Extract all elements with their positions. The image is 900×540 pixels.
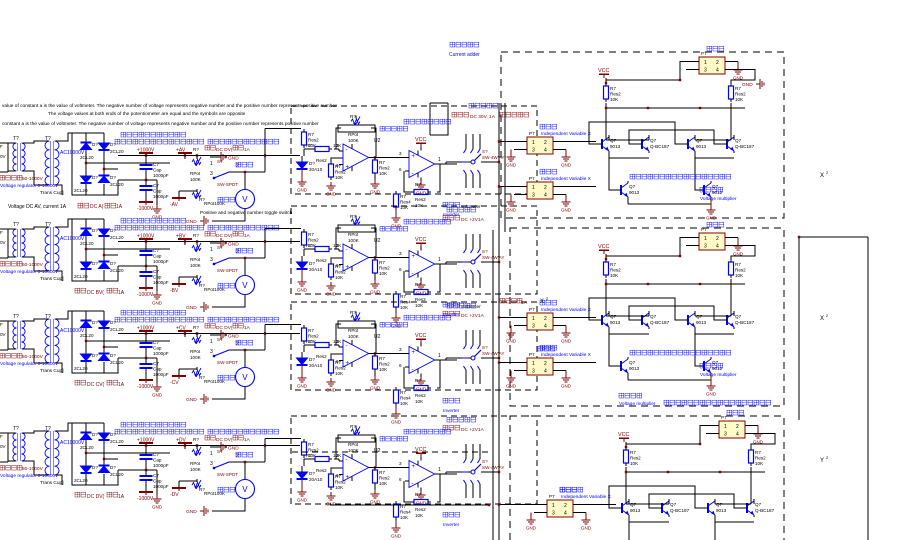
svg-text:2CL20: 2CL20	[74, 188, 88, 193]
svg-text:Voltage regulator 0-10000v: Voltage regulator 0-10000v	[0, 269, 58, 275]
power -1000V row2	[137, 280, 154, 298]
transistor Q7 Q-BC187 multiplier box1 #4	[721, 135, 755, 153]
wire: row4 bridge frame	[56, 423, 171, 485]
svg-text:2CL20: 2CL20	[80, 241, 94, 246]
svg-text:1000pF: 1000pF	[153, 351, 169, 356]
svg-text:9012: 9012	[712, 366, 723, 371]
svg-text:C7: C7	[153, 248, 159, 253]
svg-text:DC +2V1A: DC +2V1A	[461, 427, 485, 433]
ground row1 filter GND	[146, 180, 163, 220]
svg-text:Q7: Q7	[735, 314, 742, 319]
power -DV row4	[170, 481, 186, 498]
row2 left-edge input stub	[0, 229, 8, 258]
svg-text:1A: 1A	[244, 437, 251, 443]
connector P7 multiplier box2 input #1	[514, 307, 566, 330]
wire: row3 SPDT to voltmeter and output	[212, 325, 301, 400]
connector P7 multiplier box2 input #2	[514, 352, 566, 375]
svg-text:Voltage regulator 0-10000v: Voltage regulator 0-10000v	[0, 473, 58, 479]
svg-text:Q-BC187: Q-BC187	[650, 144, 670, 149]
svg-text:2CL20: 2CL20	[74, 478, 88, 483]
svg-text:0V: 0V	[0, 240, 7, 245]
ground row3 noninv GND	[326, 378, 337, 393]
row1 left-edge input stub	[0, 143, 8, 172]
svg-text:10K: 10K	[379, 367, 388, 372]
wire: row1 inverter feedback	[404, 164, 440, 192]
svg-text:20A10: 20A10	[309, 167, 323, 172]
svg-text:Y: Y	[820, 458, 824, 464]
svg-text:10K: 10K	[335, 485, 344, 490]
svg-text:P7: P7	[529, 131, 535, 136]
svg-text:Trans Cup]: Trans Cup]	[40, 368, 64, 374]
svg-text:R7: R7	[415, 282, 421, 287]
wire: row4 opamp to rotary	[446, 472, 457, 474]
wire: row1 inverter out pin1	[435, 157, 446, 164]
wire: row4 stage link	[371, 461, 409, 482]
svg-text:3: 3	[399, 461, 402, 466]
wire: row4 cap join	[118, 463, 147, 476]
svg-text:-1000V: -1000V	[137, 384, 154, 390]
wire: row2 inverter out pin1	[435, 257, 446, 264]
ground row1 voltmeter sideways GND	[186, 216, 208, 226]
label multiplier box2 output X^2	[820, 313, 829, 322]
resistor R7 Res2 10K row1 input	[302, 129, 320, 148]
svg-text:Res4: Res4	[400, 510, 411, 515]
svg-text:R7: R7	[735, 262, 741, 267]
svg-text:2CL20: 2CL20	[74, 274, 88, 279]
capacitor C7 row3 lower (1000pF)	[140, 360, 169, 377]
ground multiplier box2 input #1 GND R	[561, 326, 572, 344]
svg-text:DC BV(: DC BV(	[87, 290, 104, 296]
power VCC row1 inverter	[415, 137, 426, 151]
svg-text:DC DV(: DC DV(	[216, 233, 233, 239]
svg-text:F: F	[0, 230, 3, 235]
svg-text:V: V	[242, 195, 248, 204]
svg-text:-1000V: -1000V	[137, 206, 154, 212]
capacitor C7 row2 upper (1000pF)	[140, 247, 169, 264]
diode D? row1 bridge bottom-left (2CL20)	[74, 175, 98, 193]
wire: row2 bridge frame	[56, 219, 171, 281]
ground row4 filter GND	[146, 470, 163, 510]
svg-text:Res2: Res2	[316, 468, 327, 473]
wire: multiplier box2 lower mesh	[609, 334, 711, 380]
svg-text:3: 3	[210, 171, 213, 177]
resistor R7 Res2 10K multiplier box2 left	[604, 254, 622, 278]
power +BV row2	[176, 234, 192, 246]
svg-text:Positive and negative number t: Positive and negative number toggle swit…	[200, 210, 293, 216]
label row1 output CJK	[452, 103, 529, 120]
ground row2 noninv GND	[326, 282, 337, 297]
svg-text:1: 1	[532, 140, 535, 146]
svg-text:10K: 10K	[379, 171, 388, 176]
switch S7 SW-SPDT row1	[210, 159, 239, 187]
svg-text:R?: R?	[193, 147, 199, 152]
row3 annotation CJK line2	[115, 317, 279, 331]
svg-text:+: +	[412, 154, 416, 160]
wire: multiplier box2 input #1 to base mesh	[558, 317, 596, 319]
svg-text:Res2: Res2	[316, 258, 327, 263]
svg-text:GND: GND	[228, 446, 239, 452]
wire: row3 opamp input wires	[304, 339, 343, 364]
wire: row1 opamp to rotary	[446, 162, 457, 164]
svg-text:R7: R7	[735, 86, 741, 91]
wire: multiplier box1 input #1 to base mesh	[558, 141, 596, 143]
svg-text:0V: 0V	[0, 444, 7, 449]
svg-text:+: +	[412, 350, 416, 356]
svg-text:The voltage values at both end: The voltage values at both ends of the p…	[48, 111, 246, 117]
row2 opamp section dashed box	[291, 206, 537, 294]
potentiometer R? RPot 100K row2 feedback	[336, 214, 376, 257]
svg-text:R7: R7	[306, 243, 312, 248]
diode D? row2 bridge top-left (2CL20)	[80, 228, 98, 246]
svg-text:GND: GND	[561, 339, 572, 344]
ground multiplier box2 output GND	[733, 238, 744, 257]
voltmeter row4 (V)	[236, 480, 255, 499]
power +1000V row4	[137, 438, 155, 455]
label row4 output CJK	[443, 417, 485, 433]
note: English description line 1	[2, 103, 337, 109]
resistor R7 Res2 10K row2 interstage	[373, 256, 391, 276]
ground row2 interstage GND	[370, 276, 381, 295]
power +1000V row1	[137, 148, 155, 165]
label row3 toggle net	[236, 340, 253, 345]
ground row4 interstage GND	[370, 486, 381, 505]
transformer T7 row3 primary	[8, 314, 25, 349]
resistor R7 Res2 10K multiplier box3 right	[749, 447, 767, 466]
wire: multiplier box3 input #1 to base mesh	[578, 504, 616, 506]
switch S7 SW-SPDT row3	[210, 337, 239, 365]
svg-text:Independent Variable X: Independent Variable X	[541, 131, 592, 137]
svg-text:R7: R7	[400, 294, 406, 299]
svg-text:Res2: Res2	[308, 138, 319, 143]
svg-text:2CL20: 2CL20	[110, 472, 124, 477]
svg-text:3: 3	[399, 347, 402, 352]
potentiometer R? RPot 100K row2 lower	[179, 275, 226, 292]
resistor R7 Res2 10K row3 inv-fb	[411, 378, 431, 404]
ground multiplier box1 emitter GND	[706, 199, 717, 221]
svg-text:1A: 1A	[116, 204, 123, 210]
svg-text:1: 1	[438, 467, 441, 473]
svg-text:2: 2	[716, 236, 719, 242]
ground row1 noninv GND	[326, 182, 337, 197]
power +1000V row3	[137, 326, 155, 343]
svg-text:Q7: Q7	[712, 360, 719, 365]
power VCC multiplier box1	[598, 68, 609, 78]
resistor R7 Res2 10K row3 interstage	[373, 352, 391, 372]
diode D? row1 bridge top-right (2CL20)	[99, 142, 124, 154]
connector P7 multiplier box2 output header	[686, 222, 738, 250]
svg-text:-: -	[412, 271, 414, 277]
potentiometer R? RPot 100K row4 upper	[190, 437, 202, 472]
svg-text:GND: GND	[370, 290, 381, 295]
wire: row3 rotary to bus	[481, 357, 500, 359]
svg-text:VCC: VCC	[415, 137, 426, 143]
svg-text:+: +	[346, 361, 350, 367]
svg-text:3: 3	[210, 349, 213, 355]
power +DV row4	[176, 438, 192, 450]
svg-text:R?: R?	[350, 310, 356, 315]
svg-text:RPot: RPot	[348, 132, 359, 137]
svg-text:Independent Variable X: Independent Variable X	[561, 494, 612, 500]
svg-text:10K: 10K	[400, 515, 409, 520]
svg-text:S7: S7	[217, 337, 223, 342]
svg-text:Q7: Q7	[629, 184, 636, 189]
diode D? row4 bridge bottom-right (2CL20)	[99, 465, 124, 477]
wire: row3 opamp to rotary	[446, 358, 457, 360]
ground row2 sideways GND at switch input	[210, 238, 239, 248]
svg-text:3: 3	[532, 148, 535, 154]
op-amp U2 row1 first stage	[339, 138, 381, 171]
label multiplier box3 output Y^2	[820, 455, 829, 464]
wire: row2 opamp input wires	[304, 243, 343, 268]
wire: row2 rotary to bus	[481, 261, 500, 263]
svg-text:SW-SPDT: SW-SPDT	[217, 182, 238, 187]
resistor R7 Res2 10K row4 series	[304, 453, 342, 473]
svg-text:GND: GND	[152, 301, 163, 306]
svg-text:+: +	[412, 464, 416, 470]
svg-text:R7: R7	[415, 182, 421, 187]
svg-text:9013: 9013	[610, 320, 621, 325]
svg-text:1000pF: 1000pF	[153, 194, 169, 199]
wire: row3 bridge frame	[56, 311, 171, 373]
svg-text:1: 1	[438, 257, 441, 263]
svg-text:U2: U2	[374, 238, 381, 244]
svg-text:9013: 9013	[696, 144, 707, 149]
svg-text:2: 2	[544, 140, 547, 146]
svg-text:VCC: VCC	[598, 244, 609, 250]
svg-text:+BV: +BV	[176, 234, 186, 240]
label multiplier box2 name	[700, 363, 737, 378]
svg-text:1A: 1A	[521, 300, 528, 306]
connector P7 multiplier box1 output header	[686, 46, 738, 74]
svg-text:GND: GND	[370, 386, 381, 391]
capacitor C7 row4 lower (1000pF)	[140, 472, 169, 489]
label row2 Inverter	[443, 302, 481, 318]
power -BV row2	[170, 277, 186, 294]
diode D? row3 bridge bottom-left (2CL20)	[74, 353, 98, 371]
transformer T7 row1 secondary (step-up)	[23, 136, 85, 185]
svg-text:GND: GND	[370, 190, 381, 195]
svg-text:P7: P7	[701, 51, 707, 56]
diode D? row1 bridge top-left (2CL20)	[80, 142, 98, 160]
transformer T7 row1 primary	[8, 136, 25, 171]
svg-text:Res2: Res2	[415, 393, 426, 398]
transistor Q7 Q-BC187 multiplier box1 #2	[636, 135, 670, 153]
row1 opamp section dashed box	[291, 106, 537, 194]
wire: row4 inverter feedback	[404, 474, 440, 502]
svg-text:9013: 9013	[716, 508, 727, 513]
svg-text:1A: 1A	[244, 147, 251, 153]
svg-text:C7: C7	[153, 473, 159, 478]
svg-text:C7: C7	[153, 452, 159, 457]
svg-text:-: -	[346, 148, 348, 154]
diode D? 20A10 row2 clamp	[297, 256, 323, 272]
svg-text:R?: R?	[350, 424, 356, 429]
svg-text:2CL20: 2CL20	[80, 333, 94, 338]
svg-text:0V: 0V	[0, 154, 7, 159]
svg-text:Res2: Res2	[316, 354, 327, 359]
svg-text:DC DV(: DC DV(	[216, 437, 233, 443]
row4 opamp section dashed box	[291, 416, 537, 504]
svg-text:D?: D?	[110, 228, 116, 233]
svg-text:D?: D?	[92, 353, 98, 358]
svg-text:20A10: 20A10	[309, 363, 323, 368]
ground multiplier box2 input #1 GND L	[506, 326, 517, 344]
svg-text:S?: S?	[482, 345, 488, 350]
connector P7 multiplier box1 input #2	[514, 176, 566, 199]
svg-text:2CL20: 2CL20	[110, 149, 124, 154]
svg-text:10K: 10K	[335, 371, 344, 376]
wire: vertical bus x=499	[498, 103, 500, 540]
svg-text:R7: R7	[379, 160, 385, 165]
row1 annotation CJK line2	[115, 139, 279, 153]
svg-text:Res2: Res2	[308, 238, 319, 243]
svg-text:-: -	[412, 481, 414, 487]
svg-text:-1000V: -1000V	[137, 496, 154, 502]
connector P7 multiplier box3 output header	[706, 410, 758, 438]
label row4 Inverter	[443, 512, 460, 528]
wire: multiplier box2 input #2 to base mesh	[558, 362, 596, 364]
ground row2 voltmeter sideways GND	[186, 302, 208, 312]
power VCC multiplier box2	[598, 244, 609, 254]
svg-text:2CL20: 2CL20	[110, 235, 124, 240]
ground row1 inv-gnd GND	[391, 210, 402, 229]
capacitor C7 row2 lower (1000pF)	[140, 268, 169, 285]
svg-text:4: 4	[716, 244, 719, 250]
svg-text:+: +	[346, 265, 350, 271]
wire: row2 opamp to rotary	[446, 262, 457, 264]
svg-text:10K: 10K	[400, 305, 409, 310]
label multiplier box1 input #1 CJK	[540, 124, 592, 137]
label row4 toggle net	[236, 452, 253, 457]
op-amp row2 inverter stage	[405, 251, 439, 278]
svg-text:T?: T?	[13, 426, 19, 432]
resistor R7 Res2 10K row2 inv-fb	[411, 282, 431, 308]
svg-text:GND: GND	[706, 216, 717, 221]
svg-text:S7: S7	[217, 449, 223, 454]
svg-text:Res2: Res2	[735, 268, 746, 273]
power -AV row1	[170, 191, 186, 208]
svg-text:10K: 10K	[379, 481, 388, 486]
svg-text:-: -	[346, 248, 348, 254]
wire: row2 inverter feedback	[404, 264, 440, 292]
svg-text:GND: GND	[561, 384, 572, 389]
svg-text:DC DV(: DC DV(	[216, 325, 233, 331]
svg-text:10K: 10K	[755, 461, 764, 466]
svg-text:VCC: VCC	[618, 432, 629, 438]
svg-text:GND: GND	[506, 208, 517, 213]
svg-text:T?: T?	[13, 136, 19, 142]
svg-text:C7: C7	[153, 183, 159, 188]
ground multiplier box1 input #2 GND L	[506, 195, 517, 213]
diode D? 20A10 row3 clamp	[297, 352, 323, 368]
power -1000V row4	[137, 484, 154, 502]
connector P7 multiplier box3 input #1	[534, 494, 586, 517]
svg-text:GND: GND	[561, 163, 572, 168]
svg-text:P7: P7	[701, 227, 707, 232]
power VCC row4 inverter	[415, 447, 426, 461]
svg-text:RPot: RPot	[190, 257, 201, 262]
switch S? SW-4W row2 rotary	[457, 234, 504, 288]
wire: multiplier box3 base mesh	[609, 486, 754, 522]
svg-text:Res2: Res2	[415, 507, 426, 512]
svg-text:+: +	[346, 165, 350, 171]
svg-text:3: 3	[552, 511, 555, 517]
svg-text:D?: D?	[92, 320, 98, 325]
svg-text:1: 1	[210, 161, 213, 167]
wire: row3 inverter feedback	[404, 360, 440, 388]
svg-text:R7: R7	[308, 132, 314, 137]
svg-text:3: 3	[399, 251, 402, 256]
svg-text:GND: GND	[581, 526, 592, 531]
svg-text:R?: R?	[350, 214, 356, 219]
svg-text:100K: 100K	[190, 177, 202, 182]
label row2 voltmeter CJK	[218, 283, 235, 288]
ground multiplier box2 input #2 GND R	[561, 371, 572, 389]
svg-text:1: 1	[210, 339, 213, 345]
svg-text:4: 4	[736, 432, 739, 438]
label row3 voltmeter CJK	[218, 375, 235, 380]
svg-text:Res2: Res2	[735, 92, 746, 97]
label row2 Voltage DC text	[75, 288, 125, 296]
svg-text:1000pF: 1000pF	[153, 463, 169, 468]
svg-text:4: 4	[716, 68, 719, 74]
svg-text:1: 1	[438, 157, 441, 163]
svg-text:Voltage multiplier: Voltage multiplier	[700, 196, 737, 202]
svg-text:4: 4	[564, 511, 567, 517]
wire: multiplier box2 collector rails	[605, 238, 755, 317]
transistor Q7 9013 multiplier box1 lower-left	[615, 181, 640, 199]
svg-text:100K: 100K	[348, 138, 360, 143]
ground row3 interstage GND	[370, 372, 381, 391]
svg-text:D?: D?	[309, 357, 315, 362]
svg-text:10K: 10K	[735, 273, 744, 278]
svg-text:Q7: Q7	[712, 184, 719, 189]
svg-text:R7: R7	[306, 453, 312, 458]
svg-text:RPot: RPot	[348, 328, 359, 333]
svg-text:Q-BC187: Q-BC187	[670, 508, 690, 513]
svg-text:GND: GND	[297, 384, 308, 389]
svg-text:2CL20: 2CL20	[110, 360, 124, 365]
transistor Q7 9013 multiplier box3 #3	[702, 499, 727, 517]
svg-text:-DV: -DV	[170, 492, 179, 498]
svg-text:4: 4	[544, 148, 547, 154]
svg-text:P7: P7	[549, 494, 555, 499]
svg-text:C7: C7	[153, 269, 159, 274]
svg-text:DC 30V. 1A: DC 30V. 1A	[470, 114, 496, 120]
svg-text:1: 1	[210, 451, 213, 457]
svg-text:V: V	[242, 485, 248, 494]
svg-text:10K: 10K	[335, 175, 344, 180]
svg-text:Res2: Res2	[630, 456, 641, 461]
svg-text:Q7: Q7	[670, 502, 677, 507]
op-amp U2 row2 first stage	[339, 238, 381, 271]
switch S? SW-4W row3 rotary	[457, 330, 504, 384]
svg-text:1000pF: 1000pF	[153, 484, 169, 489]
switch S7 SW-SPDT row4	[210, 449, 239, 477]
svg-text:Res2: Res2	[379, 362, 390, 367]
svg-text:F: F	[0, 434, 3, 439]
power VCC multiplier box3	[618, 432, 629, 442]
ground multiplier box2 input #2 GND L	[506, 371, 517, 389]
diode D? row4 bridge top-left (2CL20)	[80, 432, 98, 450]
label box2 bottom multiplier note	[619, 393, 771, 407]
wire: multiplier box2 input #1 to bus	[498, 316, 522, 318]
svg-text:50-1000V: 50-1000V	[22, 354, 44, 360]
svg-text:VCC: VCC	[598, 68, 609, 74]
wire: multiplier box2 input #2 to bus	[498, 361, 522, 363]
svg-text:10K: 10K	[610, 97, 619, 102]
svg-text:6: 6	[399, 477, 402, 482]
